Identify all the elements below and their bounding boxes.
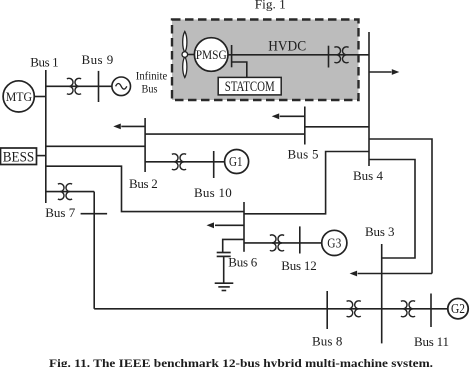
svg-text:Fig. 11. The IEEE benchmark 1: Fig. 11. The IEEE benchmark 12-bus hybri…	[49, 356, 433, 367]
svg-text:MTG: MTG	[6, 89, 32, 104]
svg-text:Bus 1: Bus 1	[30, 55, 58, 70]
svg-text:Bus 12: Bus 12	[281, 258, 316, 273]
svg-text:G1: G1	[229, 155, 243, 170]
svg-text:Fig. 1: Fig. 1	[255, 0, 286, 12]
svg-text:BESS: BESS	[3, 150, 34, 166]
svg-text:Bus 2: Bus 2	[129, 176, 158, 191]
svg-text:Bus: Bus	[142, 82, 158, 96]
svg-text:G2: G2	[451, 302, 465, 317]
svg-text:Bus 10: Bus 10	[194, 185, 232, 200]
svg-text:HVDC: HVDC	[268, 39, 306, 55]
svg-text:Bus 9: Bus 9	[82, 52, 114, 67]
svg-text:G3: G3	[327, 236, 341, 251]
svg-text:STATCOM: STATCOM	[225, 79, 275, 95]
svg-text:PMSG: PMSG	[196, 47, 227, 62]
svg-text:Bus 11: Bus 11	[414, 334, 449, 349]
svg-text:Bus 8: Bus 8	[312, 334, 342, 349]
svg-text:Bus 3: Bus 3	[365, 224, 395, 239]
svg-text:Infinite: Infinite	[136, 68, 168, 82]
svg-text:Bus 4: Bus 4	[353, 168, 384, 183]
svg-text:Bus 6: Bus 6	[228, 254, 257, 269]
svg-text:Bus 7: Bus 7	[45, 205, 75, 220]
svg-text:Bus 5: Bus 5	[288, 146, 319, 161]
